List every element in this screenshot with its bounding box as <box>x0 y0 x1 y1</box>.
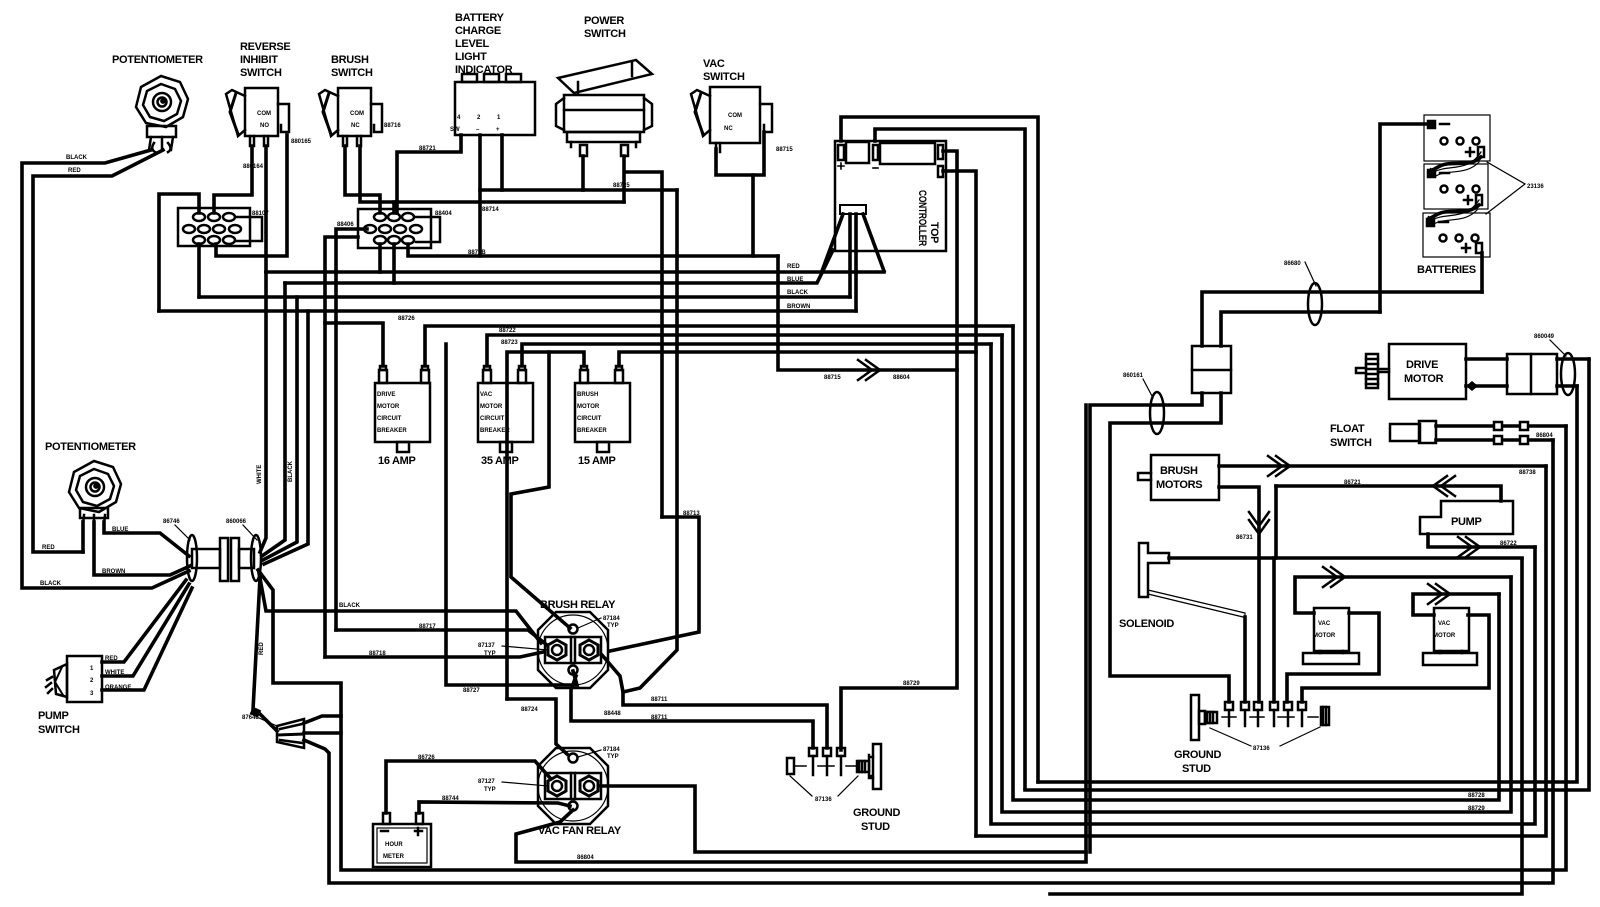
solenoid SOL1 <box>1139 543 1169 597</box>
wire vac relay right nut to ground return <box>600 786 1086 852</box>
wire x677 power feed to stud pin2 via brush relay <box>623 190 827 748</box>
svg-text:860066: 860066 <box>226 519 247 525</box>
svg-text:COM: COM <box>350 111 364 117</box>
svg-text:CONTROLLER: CONTROLLER <box>916 190 928 246</box>
float switch S6 <box>1390 421 1436 443</box>
mid bundle L1 riser down x1013 <box>1013 326 1499 800</box>
svg-text:BREAKER: BREAKER <box>377 428 407 434</box>
wire rev switch hook to J1 mid pin <box>216 135 287 256</box>
wire brush relay right nut S-curve join <box>602 655 623 692</box>
svg-text:VAC: VAC <box>703 58 725 70</box>
hour meter M1 <box>373 813 431 867</box>
wire battery3 positive down to y292 <box>1480 253 1484 292</box>
svg-text:BLACK: BLACK <box>339 603 361 609</box>
right rail x1025 bottom to drive motor top wire <box>1025 359 1589 790</box>
controller right pin A to ground stud wire <box>841 151 957 750</box>
svg-text:POWER: POWER <box>584 15 624 27</box>
svg-text:88711: 88711 <box>651 697 668 703</box>
connector block J2 <box>358 209 440 248</box>
wire CB3 left terminal to brush relay feed x505 <box>507 352 584 699</box>
wire vac switch left terminal staircase 88715 <box>716 149 753 256</box>
power switch S3 <box>556 60 652 156</box>
wire battery1 negative to x1380 rail <box>1380 124 1432 312</box>
svg-text:88724: 88724 <box>521 707 538 713</box>
circuit breaker CB3 brush motor <box>575 366 630 452</box>
svg-text:88726: 88726 <box>398 316 415 322</box>
svg-text:BREAKER: BREAKER <box>577 428 607 434</box>
svg-text:NC: NC <box>351 123 360 129</box>
drive motor M2 <box>1356 344 1466 399</box>
svg-text:TOP: TOP <box>928 222 940 243</box>
svg-text:88714: 88714 <box>482 207 499 213</box>
mid bundle L2 riser down x1002 <box>1002 335 1511 812</box>
wire CB3 right terminal to L4 <box>619 352 976 366</box>
solenoid return bottom wire <box>1050 559 1522 894</box>
svg-text:COM: COM <box>728 113 742 119</box>
svg-text:86804: 86804 <box>577 855 594 861</box>
controller top wire 1 to right rail x1038 <box>841 117 1038 782</box>
svg-text:BRUSH: BRUSH <box>577 392 598 398</box>
wire solenoid main to right <box>1169 556 1522 560</box>
svg-text:BLACK: BLACK <box>66 155 88 161</box>
svg-text:LIGHT: LIGHT <box>455 51 487 63</box>
harness riser BLUE wire to cap <box>262 283 285 556</box>
wire stud2 pin1 enclosure rail <box>1110 393 1229 702</box>
wire vac motor1 return to stud2 <box>1287 613 1379 702</box>
svg-text:SOLENOID: SOLENOID <box>1119 618 1174 630</box>
wire rev switch right terminal (RED line feed) <box>264 146 268 272</box>
vac motor M5 <box>1423 608 1477 665</box>
svg-text:GROUND: GROUND <box>853 807 900 819</box>
svg-text:35 AMP: 35 AMP <box>481 455 519 467</box>
wire drive motor top <box>1466 357 1589 361</box>
svg-text:16 AMP: 16 AMP <box>378 455 416 467</box>
svg-text:SWITCH: SWITCH <box>331 67 373 79</box>
svg-text:VAC: VAC <box>1318 621 1331 627</box>
ground stud G1 <box>787 744 881 789</box>
svg-text:86680: 86680 <box>1284 261 1301 267</box>
svg-text:23136: 23136 <box>1527 184 1544 190</box>
svg-text:87136: 87136 <box>1253 746 1270 752</box>
connector block J1 <box>178 208 262 246</box>
svg-text:87136: 87136 <box>815 797 832 803</box>
vac switch S4 <box>691 87 772 152</box>
svg-text:TYP: TYP <box>484 787 496 793</box>
svg-text:BRUSH RELAY: BRUSH RELAY <box>540 599 616 611</box>
svg-text:TYP: TYP <box>607 754 619 760</box>
svg-text:BATTERY: BATTERY <box>455 12 505 24</box>
harness connector W1 <box>187 535 261 581</box>
svg-text:88728: 88728 <box>1468 793 1485 799</box>
svg-text:86746: 86746 <box>163 519 180 525</box>
pump switch S5 <box>46 656 102 702</box>
battery jumper 1-2 <box>1431 157 1481 171</box>
grommet loop on y292 <box>1308 283 1322 325</box>
svg-text:RED: RED <box>259 642 265 655</box>
wire J2 left pin riser x336 (88717 feed) <box>336 229 367 630</box>
svg-text:MOTORS: MOTORS <box>1156 479 1202 491</box>
svg-text:88723: 88723 <box>501 340 518 346</box>
wire indicator - pin down to 88718 line <box>478 135 482 256</box>
svg-text:POTENTIOMETER: POTENTIOMETER <box>112 54 203 66</box>
harness riser RED wire to cap <box>260 272 266 552</box>
svg-text:87184: 87184 <box>603 616 620 622</box>
wire funnel upper output <box>304 716 341 723</box>
pump P3 <box>1420 501 1513 534</box>
wire brush switch left terminal to J2 <box>345 146 380 213</box>
battery charge indicator unit <box>455 74 535 135</box>
wire J1 left rail to BROWN line <box>159 194 199 311</box>
svg-text:INHIBIT: INHIBIT <box>240 54 278 66</box>
svg-text:87184: 87184 <box>603 747 620 753</box>
wire vac switch staircase down to y370 <box>778 256 957 370</box>
svg-text:METER: METER <box>383 854 405 860</box>
svg-text:88406: 88406 <box>337 222 354 228</box>
controller top wire 2 to right rail x1025 <box>875 129 1025 788</box>
svg-text:87127: 87127 <box>478 779 495 785</box>
svg-text:88727: 88727 <box>463 688 480 694</box>
svg-text:87137: 87137 <box>478 643 495 649</box>
svg-text:VAC: VAC <box>480 392 493 398</box>
harness riser BLACK wire to cap <box>263 297 297 560</box>
svg-text:VAC: VAC <box>1438 621 1451 627</box>
wire vac motor1 feed <box>1295 577 1511 613</box>
svg-text:88716: 88716 <box>384 123 401 129</box>
svg-text:FLOAT: FLOAT <box>1330 423 1365 435</box>
svg-text:88722: 88722 <box>499 328 516 334</box>
svg-text:88738: 88738 <box>1519 470 1536 476</box>
svg-text:MOTOR: MOTOR <box>577 404 600 410</box>
svg-text:TYP: TYP <box>484 651 496 657</box>
wire vac motor2 feed <box>1413 594 1499 615</box>
svg-text:88725: 88725 <box>613 183 630 189</box>
arrow on 88715 wire <box>858 360 880 380</box>
svg-text:SWITCH: SWITCH <box>703 71 745 83</box>
right section brush feed bottom wire <box>976 466 1546 836</box>
svg-text:STUD: STUD <box>1182 763 1211 775</box>
svg-text:BRUSH: BRUSH <box>331 54 369 66</box>
fuse block F1 <box>1192 346 1231 393</box>
drive motor connector <box>1507 353 1575 395</box>
svg-text:860049: 860049 <box>1534 334 1555 340</box>
svg-text:RED: RED <box>787 264 800 270</box>
wire solenoid diagonal to stud2 pin <box>1148 590 1245 617</box>
wire brush switch right terminal to J2 / 88714 start <box>360 146 394 213</box>
svg-text:MOTOR: MOTOR <box>1404 373 1444 385</box>
battery jumper 2-3 <box>1429 205 1479 219</box>
svg-text:RED: RED <box>42 545 55 551</box>
wire J2 bottom pins to RED/BLUE bundle <box>378 244 382 272</box>
wire rev switch left terminal to J1 <box>214 146 252 213</box>
vac fan relay K2 <box>538 748 608 824</box>
svg-text:LEVEL: LEVEL <box>455 38 490 50</box>
svg-text:MOTOR: MOTOR <box>480 404 503 410</box>
svg-text:87648: 87648 <box>242 715 259 721</box>
wire float top with inline connectors <box>1436 424 1566 428</box>
brush relay K1 <box>538 612 608 688</box>
svg-text:88715: 88715 <box>776 147 793 153</box>
svg-text:TYP: TYP <box>607 623 619 629</box>
controller right pin B down right section <box>943 171 976 836</box>
wire drive motor bottom <box>1466 384 1577 388</box>
svg-text:88715: 88715 <box>824 375 841 381</box>
circuit breaker CB1 drive motor <box>375 366 430 452</box>
svg-text:BLACK: BLACK <box>40 581 62 587</box>
svg-text:POTENTIOMETER: POTENTIOMETER <box>45 441 136 453</box>
svg-text:COM: COM <box>257 111 271 117</box>
svg-text:880165: 880165 <box>291 139 312 145</box>
vac motor M4 <box>1303 608 1359 664</box>
svg-text:CHARGE: CHARGE <box>455 25 501 37</box>
wire float bottom with inline connectors <box>1436 438 1553 442</box>
controller tripod platform <box>822 205 884 311</box>
svg-text:15 AMP: 15 AMP <box>578 455 616 467</box>
svg-text:REVERSE: REVERSE <box>240 41 290 53</box>
svg-text:+: + <box>496 127 500 133</box>
wire indicator + pin to 88725 line <box>500 135 504 190</box>
right rail x1038 bottom to drive motor bottom wire <box>1038 386 1577 782</box>
svg-text:BATTERIES: BATTERIES <box>1417 264 1476 276</box>
svg-text:DRIVE: DRIVE <box>377 392 395 398</box>
svg-text:NO: NO <box>260 123 269 129</box>
svg-text:DRIVE: DRIVE <box>1406 359 1438 371</box>
svg-text:88404: 88404 <box>435 211 452 217</box>
ground stud G2 <box>1191 695 1329 740</box>
grommet loop 860161 <box>1150 392 1164 434</box>
svg-text:88729: 88729 <box>903 681 920 687</box>
wire vac motor2 return to stud2 <box>1302 615 1489 702</box>
mid bundle L3 riser down x991 <box>991 344 1535 824</box>
svg-text:88729: 88729 <box>1468 806 1485 812</box>
reverse inhibit switch S1 <box>226 88 289 146</box>
harness riser BROWN wire to cap <box>264 311 308 564</box>
svg-text:BROWN: BROWN <box>787 304 810 310</box>
wire fuse bottom-left to ground rail x1090 <box>1090 393 1202 852</box>
wire harness cap lower fan to funnel <box>253 578 260 710</box>
svg-text:CIRCUIT: CIRCUIT <box>377 416 402 422</box>
svg-text:PUMP: PUMP <box>38 710 69 722</box>
svg-text:VAC FAN RELAY: VAC FAN RELAY <box>538 825 622 837</box>
svg-text:GROUND: GROUND <box>1174 749 1221 761</box>
svg-text:SWITCH: SWITCH <box>584 28 626 40</box>
svg-text:HOUR: HOUR <box>385 842 403 848</box>
wire funnel lower output to float bottom return <box>304 440 1553 883</box>
svg-text:RED: RED <box>68 168 81 174</box>
svg-text:88604: 88604 <box>893 375 910 381</box>
funnel connector <box>277 719 304 748</box>
svg-text:MOTOR: MOTOR <box>377 404 400 410</box>
svg-text:BRUSH: BRUSH <box>1160 465 1198 477</box>
svg-text:SW: SW <box>450 127 460 133</box>
potentiometer P2 <box>69 461 121 524</box>
svg-text:CIRCUIT: CIRCUIT <box>480 416 505 422</box>
wire CB2 right terminal to L3 <box>522 344 991 366</box>
potentiometer P1 <box>136 76 188 152</box>
svg-text:SWITCH: SWITCH <box>1330 437 1372 449</box>
wire fuse top-right to battery1 negative (y312) <box>1221 312 1380 346</box>
svg-text:SWITCH: SWITCH <box>38 724 80 736</box>
wire power switch right terminal to long vertical x662 <box>624 156 662 517</box>
svg-text:MOTOR: MOTOR <box>1313 633 1336 639</box>
top controller U1 <box>835 141 946 251</box>
svg-text:CIRCUIT: CIRCUIT <box>577 416 602 422</box>
circuit breaker CB2 vac motor <box>478 366 533 452</box>
brush motors M3 <box>1138 455 1219 500</box>
svg-text:BLACK: BLACK <box>288 460 294 482</box>
svg-text:860161: 860161 <box>1123 373 1144 379</box>
svg-text:88448: 88448 <box>604 711 621 717</box>
svg-text:WHITE: WHITE <box>257 465 263 484</box>
svg-text:86731: 86731 <box>1236 535 1253 541</box>
wire J1 bottom pin to BLACK line <box>197 244 201 297</box>
svg-text:BLACK: BLACK <box>787 290 809 296</box>
svg-text:MOTOR: MOTOR <box>1433 633 1456 639</box>
svg-text:PUMP: PUMP <box>1451 516 1482 528</box>
svg-text:86804: 86804 <box>1536 433 1553 439</box>
wire x325 riser (88718 feed) <box>325 237 358 657</box>
brush switch S2 <box>319 88 382 146</box>
svg-text:SWITCH: SWITCH <box>240 67 282 79</box>
svg-text:STUD: STUD <box>861 821 890 833</box>
svg-text:NC: NC <box>724 126 733 132</box>
batteries B1 B2 B3 <box>1423 115 1490 257</box>
wire stud2 pin4 riser <box>1272 558 1276 702</box>
